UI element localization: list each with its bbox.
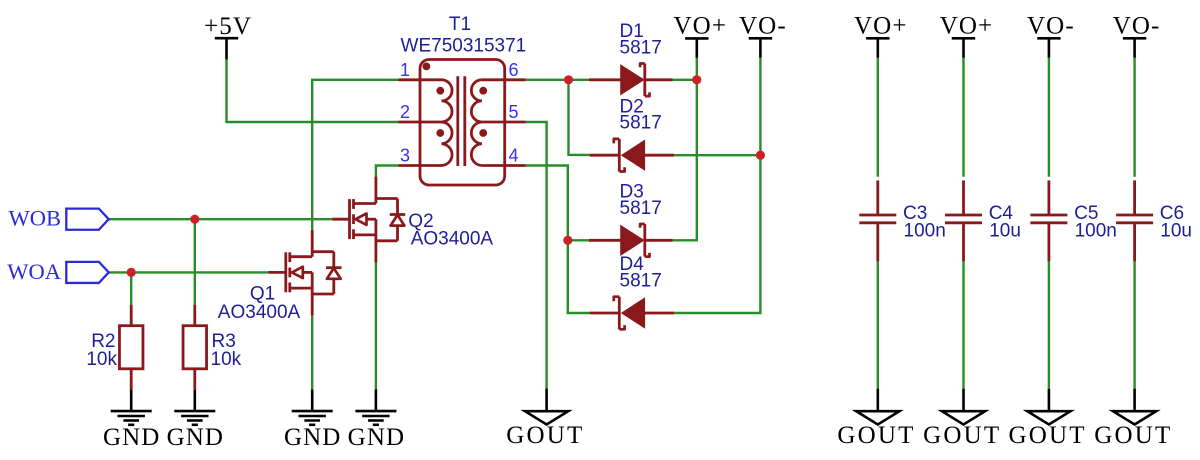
wire WOB to R3 (194, 219, 196, 305)
wire VO- bus to D4 anode (674, 58, 760, 313)
junction pin6-D1-D2 (564, 75, 573, 84)
transistor Q1 (268, 230, 341, 316)
wire transformer pin 6 to D1 anode (526, 79, 589, 81)
ground GND at R2 (103, 390, 160, 451)
capacitor C3 (859, 180, 896, 261)
svg-text:100n: 100n (1075, 220, 1117, 241)
svg-text:4: 4 (509, 146, 519, 166)
wire VO+ bus to D3 cathode (673, 80, 697, 241)
power VO+ at C4 (952, 38, 975, 58)
junction D1-VO+ (692, 75, 701, 84)
wire Q2 source to GND (375, 263, 377, 392)
junction D2-VO- (756, 151, 765, 160)
wire pin 6 bus to D2 cathode (569, 80, 590, 155)
wire VO- to C6 (1133, 58, 1135, 177)
wire transformer pin 3 to Q2 drain (376, 166, 399, 177)
svg-text:10k: 10k (211, 349, 242, 370)
svg-text:5817: 5817 (620, 198, 662, 219)
wire +5V to transformer pin 2 (227, 59, 399, 122)
wire C3 to GOUT (877, 261, 879, 389)
svg-text:2: 2 (400, 102, 410, 122)
svg-text:5: 5 (509, 102, 519, 122)
wire WOA to R2 (130, 272, 132, 305)
svg-text:VO+: VO+ (674, 12, 728, 39)
wire C4 to GOUT (962, 261, 964, 389)
diode D4 (590, 297, 675, 330)
svg-text:VO+: VO+ (854, 12, 908, 39)
wire WOB label to Q2 gate (109, 218, 332, 220)
resistor R2 (119, 305, 143, 390)
ground GOUT at C3 (837, 389, 915, 449)
power VO+ at C3 (866, 38, 889, 58)
svg-text:100n: 100n (904, 220, 946, 241)
svg-text:5817: 5817 (620, 37, 662, 58)
svg-text:5817: 5817 (620, 271, 662, 292)
wire D1 cathode to VO+ (673, 79, 697, 81)
wire WOA label to Q1 gate (109, 271, 269, 273)
svg-text:5817: 5817 (620, 113, 662, 134)
power VO- at C5 (1037, 38, 1060, 58)
wire transformer pin 1 to Q1 drain (312, 80, 398, 230)
power VO- at D2 (749, 38, 772, 58)
svg-text:3: 3 (400, 146, 410, 166)
svg-text:10k: 10k (86, 349, 117, 370)
junction WOA-R2 (127, 268, 136, 277)
svg-text:+5V: +5V (204, 13, 252, 40)
global label WOB (66, 209, 108, 230)
capacitor C6 (1116, 180, 1153, 261)
wire transformer pin 4 to D4 cathode (526, 166, 590, 314)
global label WOA (66, 262, 108, 283)
diode D3 (589, 224, 673, 257)
wire pin 4 bus to D3 anode (568, 239, 589, 241)
wire VO+ to C4 (962, 58, 964, 177)
svg-text:WE750315371: WE750315371 (401, 35, 527, 56)
wire transformer pin 5 to GOUT (526, 122, 547, 390)
capacitor C5 (1030, 180, 1067, 261)
svg-text:10u: 10u (1160, 220, 1192, 241)
svg-text:WOB: WOB (9, 206, 62, 231)
svg-text:6: 6 (509, 60, 519, 80)
ground GND at R3 (167, 390, 224, 451)
svg-text:VO+: VO+ (940, 12, 994, 39)
wire D2 anode to VO- (674, 154, 760, 156)
ground GND at Q1 (284, 390, 341, 451)
svg-text:VO-: VO- (1113, 12, 1161, 39)
ground GOUT at T1 (506, 389, 584, 449)
wire C6 to GOUT (1133, 261, 1135, 389)
wire VO- to C5 (1048, 58, 1050, 177)
wire Q1 source to GND (311, 316, 313, 392)
svg-text:AO3400A: AO3400A (411, 229, 494, 250)
svg-text:VO-: VO- (1027, 12, 1075, 39)
wire VO+ stem (696, 58, 698, 80)
svg-text:AO3400A: AO3400A (218, 302, 301, 323)
svg-text:1: 1 (400, 60, 410, 80)
transistor Q2 (332, 177, 405, 263)
ground GOUT at C4 (923, 389, 1001, 449)
junction WOB-R3 (190, 215, 199, 224)
ground GOUT at C5 (1008, 389, 1086, 449)
wire VO+ to C3 (877, 58, 879, 177)
transformer T1 (399, 60, 526, 186)
ground GOUT at C6 (1094, 389, 1172, 449)
resistor R3 (183, 305, 207, 390)
capacitor C4 (945, 180, 982, 261)
wire C5 to GOUT (1048, 261, 1050, 389)
power VO- at C6 (1123, 38, 1146, 58)
svg-text:WOA: WOA (7, 259, 61, 284)
diode D2 (590, 139, 675, 172)
power +5V (204, 13, 252, 60)
diode D1 (589, 64, 673, 97)
junction pin4-D3 (563, 236, 572, 245)
svg-text:VO-: VO- (739, 12, 787, 39)
ground GND at Q2 (348, 390, 405, 451)
svg-text:10u: 10u (989, 220, 1021, 241)
svg-text:T1: T1 (449, 14, 471, 35)
power VO+ at D1 (685, 38, 708, 58)
